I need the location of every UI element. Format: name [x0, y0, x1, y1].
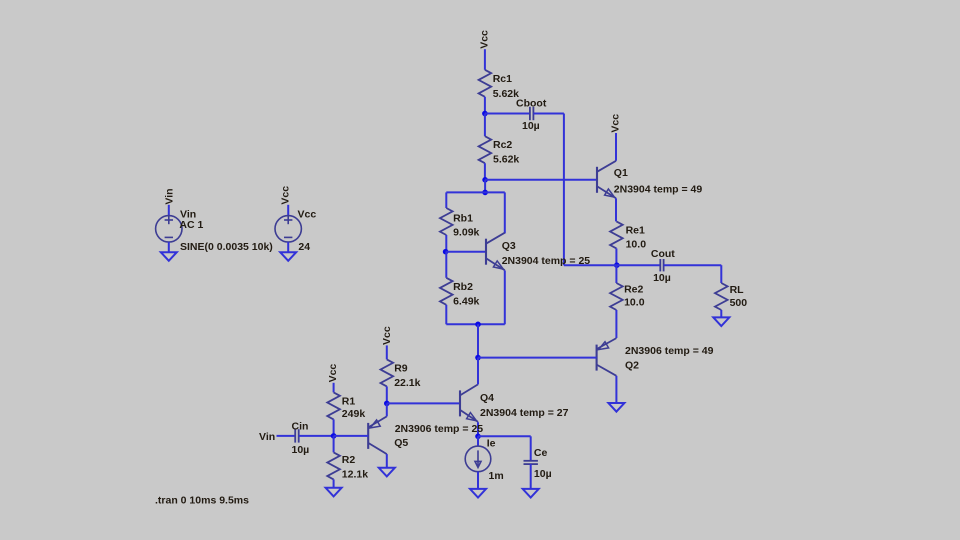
svg-text:2N3904 temp = 27: 2N3904 temp = 27 [480, 407, 569, 419]
svg-text:2N3904 temp = 49: 2N3904 temp = 49 [614, 184, 703, 196]
wire node F to Q2 base [478, 357, 597, 359]
wire Vcc-label to V2 top [287, 205, 289, 216]
svg-text:24: 24 [298, 241, 310, 253]
svg-text:R1: R1 [342, 395, 356, 407]
svg-text:9.09k: 9.09k [453, 227, 479, 239]
svg-text:Re2: Re2 [624, 284, 643, 296]
svg-text:RL: RL [730, 284, 745, 296]
wire Vcc to Rc1 [484, 49, 486, 70]
svg-text:Q1: Q1 [614, 167, 628, 179]
node E (bottom rail junction) [475, 322, 481, 328]
voltage source Vin (SINE) [156, 216, 182, 242]
transistor Q1 (2N3904) [597, 161, 616, 199]
wire Q3 emitter to bottom rail [504, 270, 506, 324]
ground under Ce [523, 489, 539, 498]
svg-text:Ce: Ce [534, 447, 548, 459]
wire RL to ground [720, 310, 722, 317]
wire node H to R2 [333, 436, 335, 453]
wire Re1 to node J [615, 248, 617, 265]
wire Cboot rail to node J [564, 264, 617, 266]
node A (Rc1/Rc2/Cboot junction) [482, 111, 488, 117]
svg-text:10µ: 10µ [522, 120, 540, 132]
wire node B down to multiplier rail [484, 180, 486, 193]
wire node D to Q3 base [446, 251, 486, 253]
wire node J to Re2 [615, 265, 617, 283]
svg-text:Rc1: Rc1 [493, 73, 512, 85]
svg-text:Vcc: Vcc [279, 186, 291, 205]
wire Ie to ground [477, 472, 479, 489]
transistor Q2 (2N3906) [597, 338, 617, 376]
ground under Vin source [161, 252, 177, 261]
transistor Q5 (2N3906) [368, 416, 387, 454]
wire Rb2 to bottom rail [445, 305, 447, 325]
wire V3 bottom stub [168, 242, 170, 252]
wire Cout to RL corner [664, 264, 722, 266]
svg-text:Re1: Re1 [626, 224, 645, 236]
node F (Q4 collector / Q2 base) [475, 355, 481, 361]
wire node I to Ie [477, 436, 479, 446]
ground under RL [713, 317, 729, 326]
svg-text:.tran 0 10ms 9.5ms: .tran 0 10ms 9.5ms [155, 495, 249, 507]
svg-text:Vin: Vin [163, 188, 175, 204]
wire top rail to Rb1 [445, 192, 447, 208]
svg-text:Vcc: Vcc [609, 114, 621, 133]
node H (Cin/R1/R2/Q5 base) [331, 433, 337, 439]
wire Rc1 to node A [484, 97, 486, 114]
svg-text:2N3906 temp = 49: 2N3906 temp = 49 [625, 345, 714, 357]
wire R1 to node H [333, 419, 335, 436]
wire multiplier bottom rail [446, 323, 505, 325]
wire corner down to Ce [530, 436, 532, 461]
svg-text:Rc2: Rc2 [493, 139, 512, 151]
voltage source Vcc [275, 216, 301, 242]
wire Cboot to corner [533, 113, 564, 115]
wire node J to Cout [617, 264, 661, 266]
wire node D to Rb2 [445, 252, 447, 278]
wire Vcc to Q1 collector [615, 133, 617, 161]
wire node I to Ce corner [478, 435, 531, 437]
wire node B to Q1 base [485, 179, 597, 181]
wire Cboot drop to output rail [563, 114, 565, 266]
wire Ce to ground [530, 464, 532, 489]
resistor R1 [327, 392, 340, 419]
svg-text:Vcc: Vcc [381, 326, 393, 345]
svg-text:2N3906 temp = 25: 2N3906 temp = 25 [395, 423, 484, 435]
svg-text:AC 1: AC 1 [179, 219, 203, 231]
svg-text:500: 500 [730, 297, 748, 309]
wire Vin-label to V3 top [168, 205, 170, 216]
svg-text:Q3: Q3 [502, 240, 516, 252]
svg-text:Q4: Q4 [480, 392, 494, 404]
svg-text:10µ: 10µ [653, 272, 671, 284]
svg-text:Vcc: Vcc [327, 364, 339, 383]
ground under Ie [470, 489, 486, 498]
resistor R2 [327, 452, 340, 479]
wire node E down to node F [477, 324, 479, 357]
capacitor Cboot [530, 107, 534, 120]
svg-text:Vin: Vin [259, 431, 275, 443]
svg-text:Cboot: Cboot [516, 97, 547, 109]
node B (Rc2 bottom / Q1 base) [482, 177, 488, 183]
current source Ie (1m) [465, 446, 491, 472]
svg-text:10.0: 10.0 [626, 238, 647, 250]
svg-text:Q2: Q2 [625, 360, 639, 372]
wire Vin label to Cin [277, 435, 296, 437]
wire Q4 collector up to node F [477, 358, 479, 385]
wire node A to Rc2 [484, 114, 486, 137]
svg-text:6.49k: 6.49k [453, 296, 479, 308]
wire node G down to Q5 emitter [386, 403, 388, 416]
capacitor Cin [295, 429, 299, 442]
wire Q1 emitter to Re1 [615, 198, 617, 221]
svg-text:Rb2: Rb2 [453, 281, 473, 293]
ground under Q2 [608, 403, 624, 412]
transistor Q3 (2N3904) [486, 233, 505, 271]
resistor Rc2 [479, 136, 492, 163]
svg-text:Vcc: Vcc [298, 209, 317, 221]
resistor Re2 [610, 283, 623, 310]
wire Rb1 to node D [445, 235, 447, 252]
wire corner down to RL [720, 265, 722, 283]
wire Q2 collector to ground [615, 376, 617, 403]
wire R2 to ground [333, 479, 335, 487]
svg-text:R2: R2 [342, 454, 356, 466]
wire Q4 emitter to node I [477, 422, 479, 436]
svg-text:Rb1: Rb1 [453, 213, 473, 225]
svg-text:Cin: Cin [292, 420, 309, 432]
wire Q5 collector to ground [386, 454, 388, 468]
svg-text:10.0: 10.0 [624, 297, 645, 309]
wire Cin to node H [299, 435, 334, 437]
capacitor Ce [524, 461, 538, 464]
resistor Rb2 [440, 278, 453, 305]
wire R9 to node G [386, 386, 388, 403]
wire node G to Q4 base [387, 402, 460, 404]
svg-text:R9: R9 [394, 363, 408, 375]
capacitor Cout [660, 259, 663, 271]
wire V2 bottom stub [287, 242, 289, 252]
ground under R2 [326, 488, 342, 497]
node C (top rail junction) [482, 190, 488, 196]
wire multiplier top rail [446, 191, 505, 193]
svg-text:SINE(0 0.0035 10k): SINE(0 0.0035 10k) [180, 241, 273, 253]
svg-text:Vcc: Vcc [479, 30, 491, 49]
node J (output node) [614, 262, 620, 268]
svg-text:10µ: 10µ [292, 444, 310, 456]
node G (R9/Q4 base/Q5 emitter) [384, 401, 390, 407]
svg-text:10µ: 10µ [534, 468, 552, 480]
wire node H to Q5 base [334, 435, 369, 437]
ground under Q5 [379, 468, 395, 477]
ground under Vcc source [280, 252, 296, 261]
wire Vcc to R9 [386, 345, 388, 359]
svg-text:249k: 249k [342, 408, 366, 420]
wire Vcc to R1 [333, 383, 335, 393]
resistor R9 [381, 359, 394, 386]
wire Rc2 to node B [484, 163, 486, 180]
resistor RL [715, 283, 728, 310]
svg-text:1m: 1m [489, 470, 504, 482]
svg-text:Ie: Ie [487, 437, 496, 449]
svg-text:Cout: Cout [651, 248, 675, 260]
transistor Q4 (2N3904) [460, 384, 478, 422]
node I (Q4 emitter / Ie / Ce) [475, 434, 481, 440]
wire Re2 to Q2 emitter [615, 310, 617, 338]
svg-text:5.62k: 5.62k [493, 153, 519, 165]
resistor Rb1 [440, 208, 453, 235]
svg-text:12.1k: 12.1k [342, 468, 368, 480]
node D (Rb1/Rb2/Q3 base) [443, 249, 449, 255]
resistor Re1 [610, 221, 623, 248]
svg-text:Q5: Q5 [394, 437, 408, 449]
wire node A to Cboot [485, 113, 530, 115]
resistor Rc1 [479, 70, 492, 97]
svg-text:22.1k: 22.1k [394, 377, 420, 389]
wire top rail to Q3 collector [504, 192, 506, 233]
